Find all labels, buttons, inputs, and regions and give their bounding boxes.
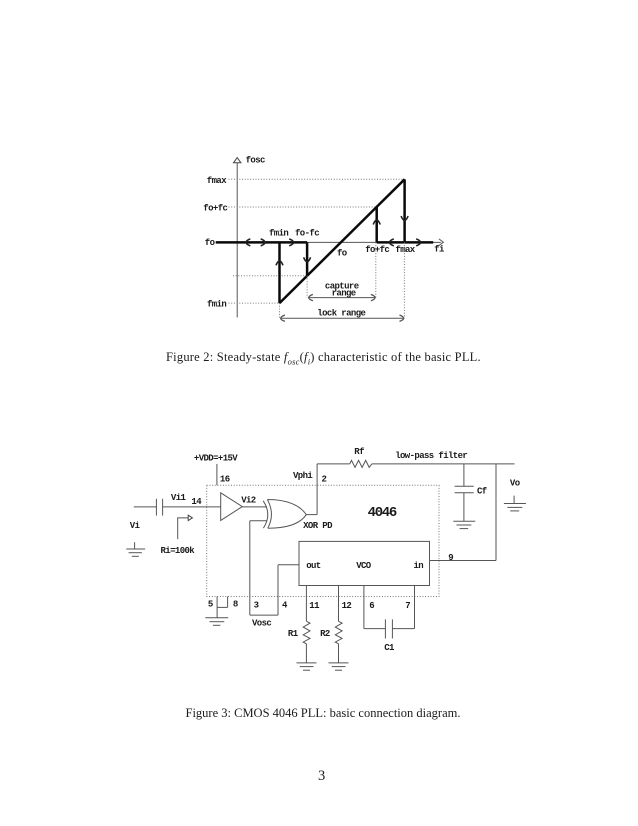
svg-text:9: 9 bbox=[448, 553, 453, 563]
svg-text:4046: 4046 bbox=[368, 505, 397, 521]
svg-text:Cf: Cf bbox=[477, 486, 487, 496]
svg-text:+VDD=+15V: +VDD=+15V bbox=[194, 453, 238, 463]
wire pin 9 horizontal to VCO in bbox=[430, 560, 497, 562]
dotted lower capture level bbox=[233, 275, 307, 277]
svg-text:14: 14 bbox=[191, 497, 202, 507]
svg-text:lock range: lock range bbox=[317, 309, 365, 319]
wire C1 to pin 7 bbox=[392, 628, 414, 630]
svg-text:fo: fo bbox=[205, 238, 215, 248]
svg-text:12: 12 bbox=[342, 601, 352, 611]
thick fo line left segment bbox=[216, 241, 307, 244]
fosc axis (vertical) bbox=[236, 162, 238, 317]
svg-text:range: range bbox=[332, 289, 356, 299]
dotted vertical below fmin point bbox=[279, 303, 281, 318]
wire XOR input B horizontal bbox=[250, 520, 267, 522]
dotted vertical capture left bbox=[306, 276, 308, 298]
svg-text:fmax: fmax bbox=[207, 176, 227, 186]
svg-text:Vosc: Vosc bbox=[252, 618, 271, 628]
thick vertical drop at fo-fc (x=307.1) bbox=[306, 242, 309, 275]
svg-text:low-pass filter: low-pass filter bbox=[395, 451, 467, 461]
wire pin 6 vertical bbox=[363, 586, 365, 629]
chevron left at 390 bbox=[389, 239, 393, 246]
caption figure 2 bbox=[166, 350, 481, 367]
svg-text:fo-fc: fo-fc bbox=[295, 228, 319, 238]
wire top node to Rf bbox=[317, 463, 350, 465]
svg-text:Vi: Vi bbox=[130, 521, 141, 531]
svg-text:fi: fi bbox=[434, 245, 445, 255]
Ri input-impedance arrow bbox=[178, 518, 188, 539]
pin 5 stub bbox=[216, 597, 218, 608]
ground below R1 bbox=[297, 663, 317, 670]
wire pin 2 vertical (Vphi) bbox=[316, 464, 318, 515]
wire cap to buffer (pin 14) bbox=[163, 506, 221, 508]
buffer amplifier (input follower) bbox=[221, 493, 243, 521]
dotted vertical capture right bbox=[375, 242, 377, 297]
resistor R2 bbox=[335, 621, 342, 644]
svg-text:Vo: Vo bbox=[510, 479, 520, 489]
svg-text:Vphi: Vphi bbox=[293, 471, 313, 481]
svg-text:Vi1: Vi1 bbox=[171, 493, 187, 503]
wire pin 16 supply stub bbox=[216, 464, 218, 485]
chevron left at 246 bbox=[246, 239, 250, 246]
XOR phase detector gate bbox=[263, 501, 268, 528]
svg-text:fo+fc: fo+fc bbox=[365, 245, 389, 255]
wire pin 12 vertical bbox=[338, 586, 340, 622]
IC 4046 dotted boundary box bbox=[207, 485, 439, 596]
wire pin 11 vertical bbox=[305, 586, 307, 622]
svg-text:Rf: Rf bbox=[354, 447, 364, 457]
svg-text:Ri=100k: Ri=100k bbox=[161, 546, 196, 556]
ground below Cf bbox=[453, 521, 475, 528]
lock range arrow bbox=[280, 317, 404, 319]
svg-text:7: 7 bbox=[405, 601, 410, 611]
pin 8 stub bbox=[227, 597, 229, 608]
wire pin 4 vertical bbox=[277, 565, 279, 615]
svg-text:fmin: fmin bbox=[207, 299, 226, 309]
chevron right at 265 bbox=[261, 239, 265, 246]
wire Vosc horizontal pin4 to pin3 bbox=[250, 614, 278, 616]
svg-text:in: in bbox=[414, 561, 424, 571]
svg-text:6: 6 bbox=[369, 601, 374, 611]
wire Cf to ground bbox=[463, 493, 465, 521]
wire Cf tap bbox=[463, 464, 465, 486]
fi axis arrowhead bbox=[439, 239, 444, 246]
resistor R1 bbox=[303, 621, 310, 644]
wire pin 9 vertical bbox=[495, 464, 497, 561]
thick vertical at fmax (x=404.6) bbox=[403, 179, 406, 242]
dotted fmin level bbox=[229, 302, 280, 304]
up arrow on x=279.5 bbox=[276, 261, 283, 265]
svg-text:VCO: VCO bbox=[356, 561, 372, 571]
thick vertical at fo+fc (x=376.7) bbox=[375, 207, 378, 242]
VCO box bbox=[299, 541, 430, 585]
input terminal wire Vi bbox=[134, 506, 157, 508]
capacitor Vi coupling bbox=[155, 499, 157, 516]
capture range arrow bbox=[308, 297, 375, 299]
down arrow on x=404.6 bbox=[401, 216, 408, 220]
wire VCO out to pin 4 bbox=[278, 564, 299, 566]
fi axis (horizontal thin) bbox=[307, 241, 441, 243]
down arrow on x=307.1 bbox=[304, 257, 311, 261]
svg-text:fo: fo bbox=[337, 249, 347, 259]
svg-text:fosc: fosc bbox=[246, 156, 265, 166]
svg-text:fmax: fmax bbox=[395, 245, 415, 255]
ground below Vo bbox=[504, 496, 526, 511]
svg-text:XOR PD: XOR PD bbox=[303, 521, 333, 531]
thick diagonal fosc characteristic bbox=[280, 179, 405, 303]
wire pin 7 vertical bbox=[414, 586, 416, 629]
capacitor Cf bbox=[455, 485, 474, 487]
caption figure 3 bbox=[186, 706, 461, 721]
chevron right at 293.5 bbox=[289, 239, 293, 246]
ground below pins 5,8 bbox=[205, 607, 228, 625]
svg-text:Vi2: Vi2 bbox=[241, 496, 256, 506]
thick fo line right segment bbox=[377, 241, 434, 244]
svg-text:8: 8 bbox=[233, 600, 238, 610]
ground below R2 bbox=[329, 663, 349, 670]
svg-text:3: 3 bbox=[254, 600, 259, 610]
dotted vertical lock right bbox=[403, 242, 405, 318]
ground below Vi bbox=[126, 542, 145, 556]
svg-text:C1: C1 bbox=[384, 643, 395, 653]
fosc axis arrowhead bbox=[234, 158, 241, 163]
svg-text:2: 2 bbox=[322, 475, 327, 485]
page number bbox=[318, 768, 325, 785]
wire Rf to Vo terminal bbox=[372, 463, 515, 465]
wire pin5-pin8 link bbox=[217, 606, 228, 608]
svg-text:11: 11 bbox=[309, 601, 320, 611]
wire pin 6 to C1 bbox=[364, 628, 386, 630]
wire R1 to ground bbox=[305, 644, 307, 663]
wire buffer to XOR input A bbox=[242, 506, 267, 508]
svg-text:out: out bbox=[306, 561, 321, 571]
wire pin 3 vertical bbox=[249, 521, 251, 615]
dotted fmax level bbox=[229, 178, 405, 180]
svg-text:16: 16 bbox=[220, 475, 230, 485]
wire R2 to ground bbox=[338, 644, 340, 663]
wire XOR output to pin 2 node bbox=[306, 514, 317, 516]
svg-text:fo+fc: fo+fc bbox=[203, 203, 227, 213]
up arrow on x=376.7 bbox=[373, 220, 380, 224]
dotted fo+fc level bbox=[229, 206, 377, 208]
resistor Rf bbox=[350, 460, 372, 467]
capacitor C1 bbox=[384, 619, 386, 638]
svg-text:5: 5 bbox=[208, 600, 213, 610]
svg-text:fmin: fmin bbox=[269, 228, 288, 238]
thick vertical drop at fo-fc left (x=279.5) bbox=[278, 242, 281, 303]
svg-text:R1: R1 bbox=[288, 629, 299, 639]
svg-text:R2: R2 bbox=[320, 629, 330, 639]
chevron right at 423 bbox=[416, 239, 420, 246]
svg-text:4: 4 bbox=[282, 600, 288, 610]
